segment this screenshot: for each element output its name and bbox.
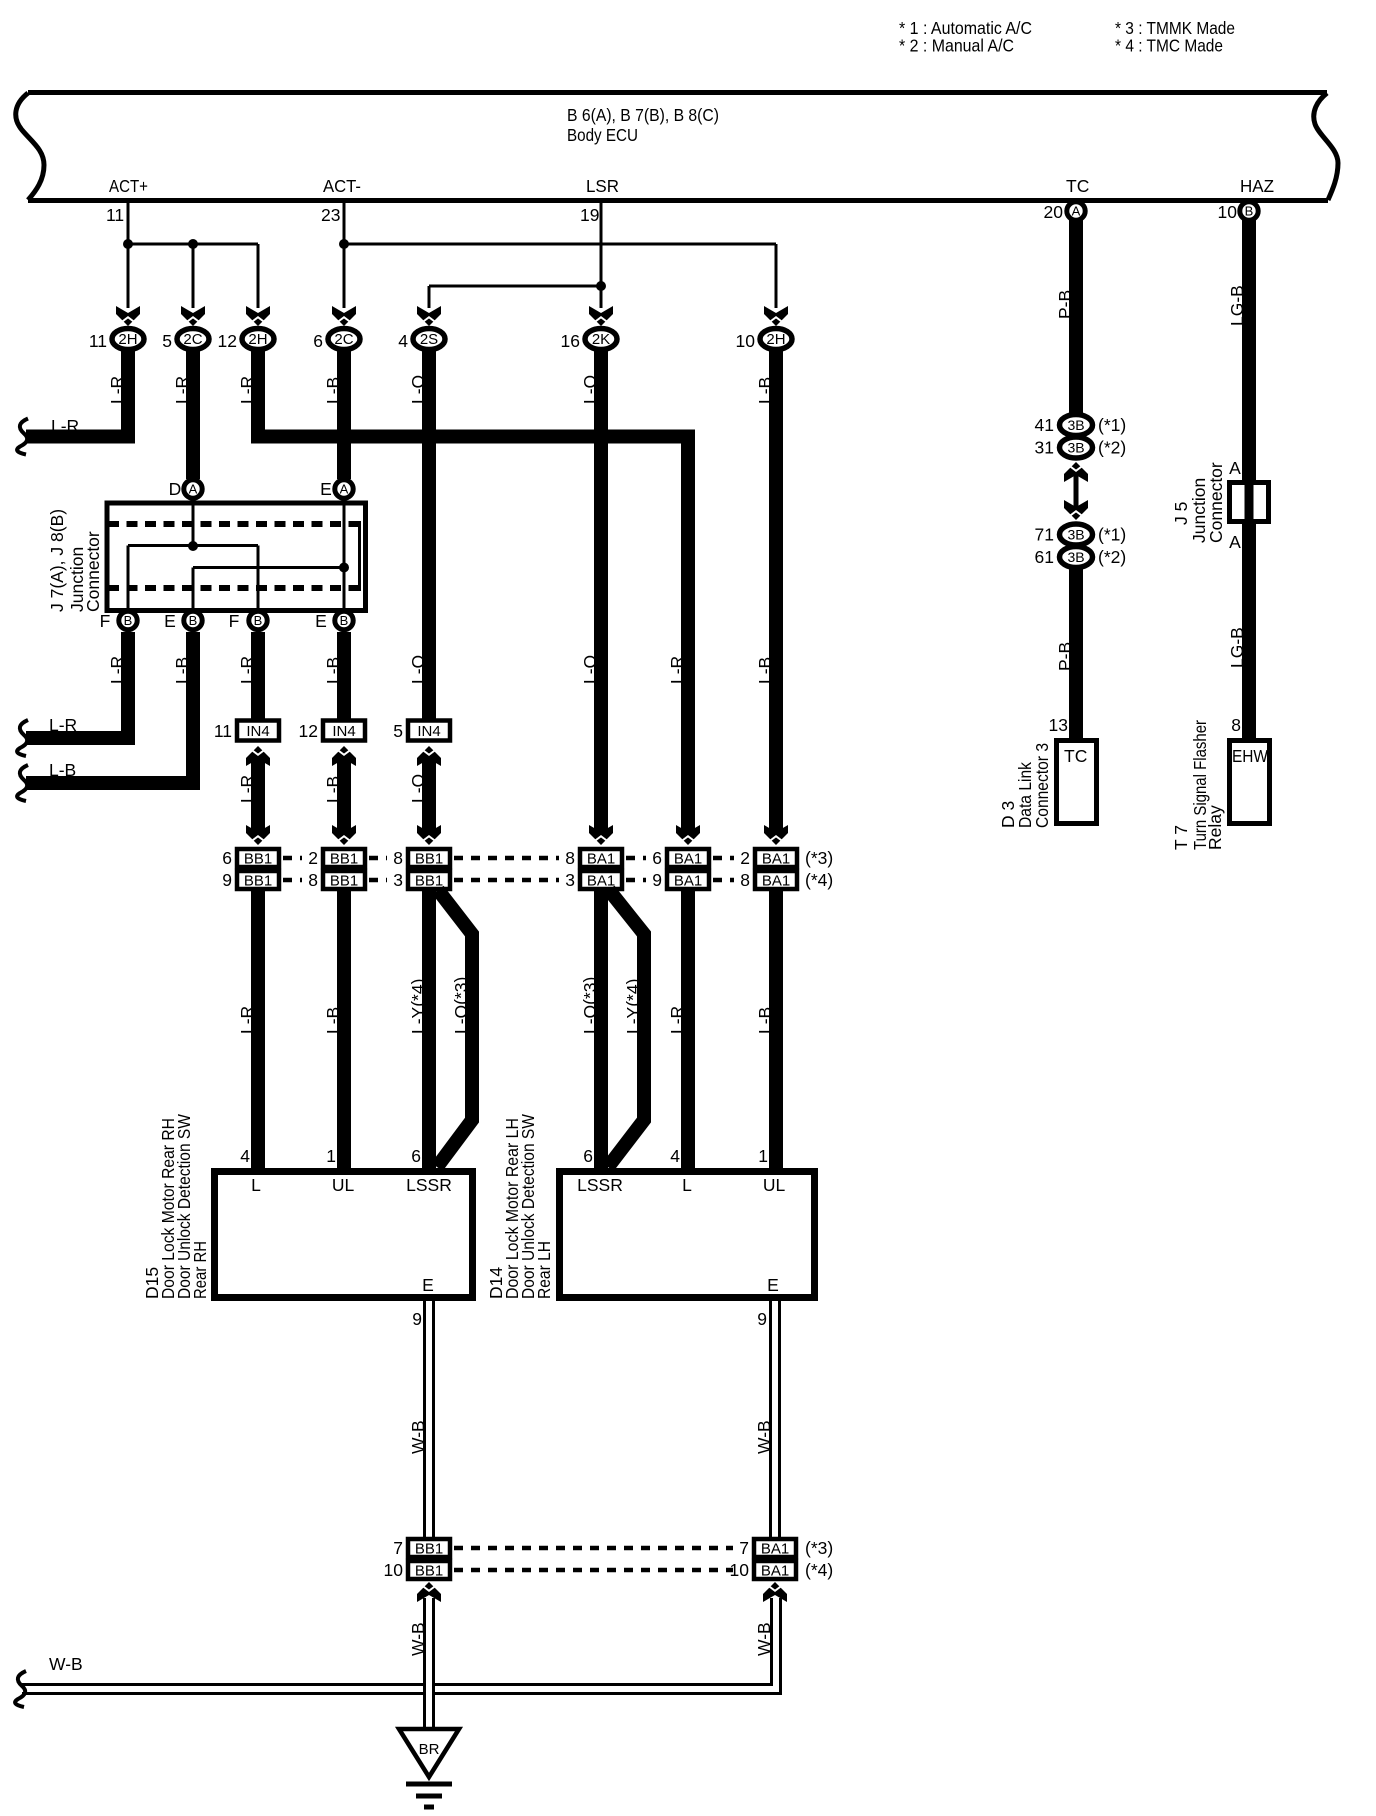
svg-text:1: 1	[758, 1146, 768, 1166]
svg-text:71: 71	[1035, 525, 1054, 545]
svg-text:L-B: L-B	[323, 657, 343, 684]
wire P-B to D3 data link connector	[1069, 568, 1083, 740]
svg-text:L-B: L-B	[755, 1007, 775, 1034]
svg-text:L-R: L-R	[237, 656, 257, 684]
wire P-B from TC pin 20	[1069, 219, 1083, 416]
wire L-R from 2H 11 to torn end	[26, 350, 128, 437]
svg-text:IN4: IN4	[332, 723, 355, 740]
svg-text:9: 9	[652, 870, 662, 890]
svg-text:L-R: L-R	[667, 1006, 687, 1034]
svg-text:LG-B: LG-B	[1227, 627, 1247, 668]
svg-text:Connector 3: Connector 3	[1032, 743, 1052, 828]
wire L-B IN4 to BB1 double arrow	[337, 754, 351, 838]
svg-text:3: 3	[565, 870, 575, 890]
svg-text:W-B: W-B	[408, 1420, 428, 1454]
svg-text:L-Y(*4): L-Y(*4)	[623, 979, 643, 1034]
connector 3B pin 61 (*2)	[1060, 547, 1093, 568]
svg-text:L-R: L-R	[51, 416, 79, 436]
svg-text:L-R: L-R	[667, 656, 687, 684]
svg-text:(*4): (*4)	[805, 1560, 833, 1580]
node internal junction 2	[339, 563, 349, 573]
svg-text:2K: 2K	[592, 331, 610, 348]
wire from 2C 5 to junction connector D A	[186, 350, 200, 479]
component D15 Door Lock Motor Rear RH	[215, 1172, 473, 1298]
svg-text:(*1): (*1)	[1098, 415, 1126, 435]
svg-text:B: B	[254, 613, 263, 628]
arrow up into BA1	[763, 1582, 787, 1602]
svg-text:B: B	[124, 613, 133, 628]
connector 2H pin 11	[116, 306, 140, 326]
svg-text:Connector: Connector	[1206, 462, 1226, 543]
connector IN4 pin 11	[237, 721, 279, 741]
svg-text:LSSR: LSSR	[406, 1175, 452, 1195]
svg-text:B: B	[189, 613, 198, 628]
svg-text:7: 7	[393, 1538, 403, 1558]
svg-text:TC: TC	[1064, 746, 1087, 766]
wire branch to 2H pin 12	[257, 244, 260, 308]
svg-text:(*2): (*2)	[1098, 438, 1126, 458]
junction connector J7(A) J8(B)	[107, 503, 366, 611]
wire L-B BB1 to D15 pin 1	[337, 891, 351, 1168]
svg-text:W-B: W-B	[754, 1622, 774, 1656]
connector BA1 pins 7/10	[754, 1539, 796, 1557]
svg-text:BB1: BB1	[415, 1563, 443, 1580]
connector IN4 pin 12	[323, 721, 365, 741]
connector BB1 pins 6/9	[237, 849, 279, 867]
svg-text:BA1: BA1	[587, 873, 615, 890]
svg-text:4: 4	[670, 1146, 680, 1166]
svg-text:BA1: BA1	[674, 873, 702, 890]
wire L-R bus from 2H 12 across to BA1 column	[258, 350, 688, 833]
svg-text:HAZ: HAZ	[1240, 176, 1274, 196]
arrow into BA1	[589, 825, 613, 845]
svg-text:L-Y(*4): L-Y(*4)	[408, 979, 428, 1034]
component T7 Turn Signal Flasher Relay pin EHW	[1230, 741, 1270, 824]
svg-text:(*3): (*3)	[805, 1538, 833, 1558]
svg-text:UL: UL	[763, 1175, 786, 1195]
svg-text:A: A	[1229, 532, 1241, 552]
wire L-R from F B to torn end	[26, 632, 128, 738]
wire L-R from F B to IN4 11	[251, 632, 265, 719]
svg-text:P-B: P-B	[1055, 290, 1075, 319]
svg-text:LSR: LSR	[586, 176, 619, 196]
wire L-O from 2S 4 down to IN4 5	[422, 350, 436, 719]
svg-text:E: E	[422, 1275, 434, 1295]
node LSR branch	[596, 281, 606, 291]
svg-text:D: D	[169, 479, 182, 499]
svg-text:3B: 3B	[1067, 440, 1084, 456]
svg-text:L-B: L-B	[49, 760, 76, 780]
svg-text:E: E	[320, 479, 332, 499]
svg-text:Body ECU: Body ECU	[567, 125, 638, 145]
svg-text:UL: UL	[332, 1175, 355, 1195]
svg-text:BA1: BA1	[761, 1541, 789, 1558]
svg-text:BB1: BB1	[330, 851, 358, 868]
svg-text:E: E	[164, 611, 176, 631]
svg-text:12: 12	[299, 721, 318, 741]
wire L-Y(*4) bowed BA1 to D14 pin 6	[608, 890, 644, 1167]
svg-text:T 7: T 7	[1171, 825, 1191, 850]
wire L-B BA1 to D14 pin 1	[769, 891, 783, 1168]
svg-text:9: 9	[757, 1309, 767, 1329]
svg-text:J 5: J 5	[1171, 502, 1191, 525]
Body ECU connector block B6(A) B7(B) B8(C)	[28, 90, 1327, 95]
svg-text:L-R: L-R	[237, 1006, 257, 1034]
svg-text:B: B	[1245, 204, 1254, 219]
dashed connector link bottom	[454, 1546, 733, 1551]
svg-text:(*2): (*2)	[1098, 547, 1126, 567]
svg-text:BA1: BA1	[762, 851, 790, 868]
svg-text:8: 8	[565, 848, 575, 868]
svg-text:8: 8	[308, 870, 318, 890]
svg-text:A: A	[189, 482, 198, 497]
svg-text:W-B: W-B	[408, 1622, 428, 1656]
svg-text:11: 11	[106, 205, 124, 225]
svg-text:2C: 2C	[183, 331, 202, 348]
svg-text:12: 12	[218, 331, 237, 351]
internal wire D-A to F pins	[192, 503, 195, 546]
svg-text:5: 5	[393, 721, 403, 741]
wire from 2C 6 to junction connector E A	[337, 350, 351, 479]
wire ACT+ pin 11 down	[127, 201, 130, 308]
connector BB1 pins 7/10	[408, 1539, 450, 1557]
svg-text:6: 6	[411, 1146, 421, 1166]
connector 2C pin 5	[181, 306, 205, 326]
svg-text:2H: 2H	[248, 331, 267, 348]
connector 3B pin 71 (*1)	[1060, 524, 1093, 545]
wire LG-B from J5 to T7	[1242, 524, 1256, 740]
svg-text:L-R: L-R	[237, 775, 257, 803]
svg-text:6: 6	[583, 1146, 593, 1166]
svg-text:11: 11	[214, 721, 232, 741]
svg-text:L-O(*3): L-O(*3)	[451, 977, 471, 1034]
svg-text:8: 8	[1231, 715, 1241, 735]
svg-text:10: 10	[384, 1560, 404, 1580]
svg-text:8: 8	[740, 870, 750, 890]
connector 2K pin 16	[589, 306, 613, 326]
connector BB1 pins 2/8	[323, 849, 365, 867]
svg-text:2H: 2H	[766, 331, 785, 348]
svg-text:4: 4	[398, 331, 408, 351]
wire ACT- pin 23 down	[343, 201, 346, 308]
svg-text:L-B: L-B	[172, 657, 192, 684]
svg-text:L-O: L-O	[408, 774, 428, 803]
connector 2C pin 6	[332, 306, 356, 326]
svg-text:2S: 2S	[420, 331, 438, 348]
svg-text:L-B: L-B	[323, 1007, 343, 1034]
svg-text:9: 9	[222, 870, 232, 890]
svg-text:10: 10	[1218, 202, 1238, 222]
wire branch to 2H pin 10	[775, 244, 778, 308]
component D3 Data Link Connector 3 pin TC	[1057, 741, 1097, 824]
svg-text:P-B: P-B	[1055, 642, 1075, 671]
svg-text:3B: 3B	[1067, 417, 1084, 433]
svg-text:(*3): (*3)	[805, 848, 833, 868]
svg-text:BA1: BA1	[587, 851, 615, 868]
svg-text:9: 9	[412, 1309, 422, 1329]
node ACT+ branch	[128, 243, 258, 246]
svg-text:8: 8	[393, 848, 403, 868]
wire L-O from 2K 16 down to BA1	[594, 350, 608, 833]
svg-text:L-O(*3): L-O(*3)	[580, 977, 600, 1034]
svg-text:IN4: IN4	[246, 723, 269, 740]
svg-text:7: 7	[739, 1538, 749, 1558]
svg-text:A: A	[1229, 458, 1241, 478]
connector 2H pin 10	[764, 306, 788, 326]
svg-text:L-B: L-B	[755, 657, 775, 684]
wire L-B from E B to IN4 12	[337, 632, 351, 719]
svg-text:W-B: W-B	[754, 1420, 774, 1454]
svg-text:5: 5	[162, 331, 172, 351]
svg-text:A: A	[340, 482, 349, 497]
svg-text:E: E	[315, 611, 327, 631]
svg-text:2: 2	[308, 848, 318, 868]
svg-text:19: 19	[580, 205, 599, 225]
svg-text:6: 6	[652, 848, 662, 868]
wire LSR pin 19 down	[600, 201, 603, 308]
wire L-Y(*4) BB1 to D15 pin 6	[422, 891, 436, 1168]
svg-text:(*1): (*1)	[1098, 525, 1126, 545]
svg-text:ACT+: ACT+	[109, 176, 148, 196]
dashed connector link row 1	[283, 856, 302, 861]
svg-text:BB1: BB1	[244, 851, 272, 868]
svg-text:Rear LH: Rear LH	[534, 1241, 554, 1299]
wire L-O(*3) BA1 to D14 pin 6	[594, 891, 608, 1168]
svg-text:J 7(A), J 8(B): J 7(A), J 8(B)	[47, 509, 67, 612]
svg-text:20: 20	[1044, 202, 1064, 222]
svg-text:61: 61	[1035, 547, 1054, 567]
arrow up into BB1	[417, 1582, 441, 1602]
svg-text:31: 31	[1035, 438, 1054, 458]
svg-text:2H: 2H	[118, 331, 137, 348]
svg-text:F: F	[229, 611, 240, 631]
svg-text:B 6(A), B 7(B), B 8(C): B 6(A), B 7(B), B 8(C)	[567, 105, 719, 125]
svg-text:11: 11	[89, 331, 107, 351]
svg-text:L: L	[682, 1175, 692, 1195]
wire branch to 2S pin 4	[428, 286, 431, 308]
svg-text:A: A	[1072, 204, 1081, 219]
wire L-R BB1 to D15 pin 4	[251, 891, 265, 1168]
wire L-O IN4 to BB1 double arrow	[422, 754, 436, 838]
wire L-R IN4 to BB1 double arrow	[251, 754, 265, 838]
svg-text:BA1: BA1	[762, 873, 790, 890]
svg-text:LG-B: LG-B	[1227, 285, 1247, 326]
svg-text:BB1: BB1	[415, 873, 443, 890]
connector 2S pin 4	[417, 306, 441, 326]
component D14 Door Lock Motor Rear LH	[560, 1172, 815, 1298]
internal wire E-A to E-B pins	[343, 503, 346, 611]
svg-text:6: 6	[222, 848, 232, 868]
ground symbol BR	[399, 1729, 459, 1777]
svg-text:IN4: IN4	[417, 723, 440, 740]
svg-text:Relay: Relay	[1205, 805, 1225, 850]
wire L-B from 2H 10 down to BA1	[769, 350, 783, 833]
svg-text:BR: BR	[419, 1741, 440, 1758]
svg-text:L-R: L-R	[49, 715, 77, 735]
wire W-B horizontal ground bus to torn end	[22, 1598, 776, 1689]
svg-text:4: 4	[240, 1146, 250, 1166]
svg-text:W-B: W-B	[49, 1654, 83, 1674]
svg-text:BB1: BB1	[415, 1541, 443, 1558]
wire LG-B from HAZ pin 10	[1242, 219, 1256, 481]
wire double arrow between 3B connectors	[1074, 470, 1079, 512]
svg-text:* 2 : Manual A/C: * 2 : Manual A/C	[899, 36, 1014, 56]
node internal junction	[188, 541, 198, 551]
svg-text:BA1: BA1	[674, 851, 702, 868]
wire L-O(*3) bowed BB1 to D15 pin 6	[437, 890, 472, 1167]
connector BA1 pins 6/9	[667, 849, 709, 867]
svg-text:L-R: L-R	[107, 656, 127, 684]
svg-text:TC: TC	[1066, 176, 1089, 196]
svg-text:BB1: BB1	[244, 873, 272, 890]
junction connector J5	[1230, 483, 1269, 522]
svg-text:L-O: L-O	[580, 655, 600, 684]
svg-text:3B: 3B	[1067, 549, 1084, 565]
svg-text:2C: 2C	[334, 331, 353, 348]
svg-text:13: 13	[1049, 715, 1068, 735]
svg-text:2: 2	[740, 848, 750, 868]
svg-text:L-O: L-O	[408, 655, 428, 684]
wire W-B lower left to ground	[423, 1598, 435, 1731]
svg-text:BB1: BB1	[415, 851, 443, 868]
connector 2H pin 12	[246, 306, 270, 326]
connector BB1 pins 8/3	[408, 849, 450, 867]
svg-text:L: L	[251, 1175, 261, 1195]
svg-text:* 4 : TMC Made: * 4 : TMC Made	[1115, 36, 1223, 56]
wire L-B from E B to torn end	[26, 632, 193, 783]
svg-text:BA1: BA1	[761, 1563, 789, 1580]
arrow into BA1	[764, 825, 788, 845]
svg-text:6: 6	[313, 331, 323, 351]
svg-text:Connector: Connector	[83, 531, 103, 612]
svg-text:1: 1	[326, 1146, 336, 1166]
wire L-R BA1 to D14 pin 4	[681, 891, 695, 1168]
svg-text:EHW: EHW	[1232, 746, 1268, 766]
svg-text:23: 23	[321, 205, 340, 225]
svg-text:3B: 3B	[1067, 527, 1084, 543]
connector IN4 pin 5	[408, 721, 450, 741]
svg-text:L-B: L-B	[323, 776, 343, 803]
svg-text:LSSR: LSSR	[577, 1175, 623, 1195]
svg-text:41: 41	[1035, 415, 1054, 435]
connector BA1 pins 8/3	[580, 849, 622, 867]
arrow into BA1	[676, 825, 700, 845]
svg-text:10: 10	[736, 331, 756, 351]
svg-text:F: F	[100, 611, 111, 631]
svg-text:3: 3	[393, 870, 403, 890]
svg-text:E: E	[767, 1275, 779, 1295]
svg-text:Rear RH: Rear RH	[190, 1241, 210, 1299]
svg-text:16: 16	[561, 331, 580, 351]
wire branch to 2C pin 5	[192, 244, 195, 308]
connector 3B pin 41 (*1)	[1060, 415, 1093, 436]
svg-text:B: B	[340, 613, 349, 628]
connector BA1 pins 2/8	[755, 849, 797, 867]
svg-text:(*4): (*4)	[805, 870, 833, 890]
node ACT- branch	[339, 239, 349, 249]
svg-text:BB1: BB1	[330, 873, 358, 890]
connector 3B pin 31 (*2)	[1060, 437, 1093, 458]
svg-text:ACT-: ACT-	[323, 176, 361, 196]
